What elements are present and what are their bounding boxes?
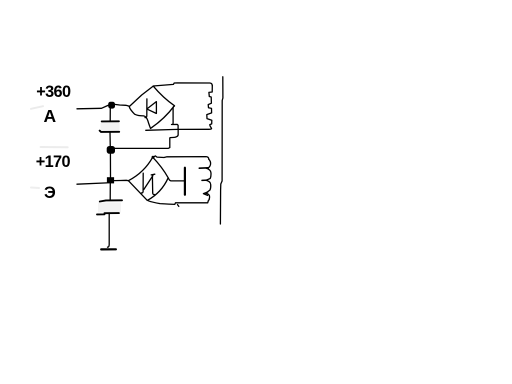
wire winding W1 bottom	[178, 128, 211, 129]
tube V2 envelope (diamond)	[128, 157, 168, 200]
V2 grid bar	[184, 168, 186, 195]
wire C2 to ground	[108, 214, 110, 247]
wire V2 to grid bar	[168, 178, 184, 181]
jpeg smudge near A	[31, 106, 43, 109]
wire V1 grid drop	[172, 106, 179, 129]
winding W2 cusp tick 2	[202, 179, 207, 181]
tube V2 apex blob	[152, 156, 155, 159]
wire node A to tube V1	[115, 104, 130, 106]
tube V1 triangle lower stroke	[148, 109, 157, 113]
jpeg smudge under +170 row	[41, 146, 68, 148]
jpeg noise inside C2	[98, 203, 121, 213]
jpeg smudge left of Э	[31, 187, 39, 190]
tube V1 envelope (diamond)	[129, 86, 174, 128]
label A (anode)	[44, 106, 57, 127]
wire node E to tube V2	[114, 179, 128, 181]
wire V1 anode to winding W1	[153, 83, 212, 86]
label +170	[36, 153, 70, 172]
wire +170/Э to node E	[77, 183, 107, 184]
tube V2 right bar	[152, 176, 154, 195]
node B junction dot	[107, 146, 115, 154]
capacitor C2 top plate	[100, 200, 122, 201]
tube V2 diagonal	[144, 176, 153, 190]
wire +360/A to node	[77, 105, 111, 109]
wire C1 to node B	[109, 132, 111, 148]
capacitor C1 bottom plate	[100, 131, 120, 132]
tube V2 cathode line	[142, 173, 144, 193]
tube V1 triangle upper stroke	[147, 102, 156, 109]
tick under W2 bottom wire	[178, 205, 179, 207]
node A junction dot	[108, 102, 115, 109]
wire V2 anode to winding W2	[153, 156, 209, 159]
tube V2 top tick	[151, 173, 155, 176]
jpeg noise inside C1	[101, 123, 120, 131]
tube V1 cathode line	[145, 99, 147, 118]
wire node A to capacitor C1	[109, 106, 111, 122]
winding W2 cusp tick 1	[199, 167, 208, 169]
wire node B to node E	[109, 149, 111, 178]
wire node E to capacitor C2	[109, 184, 111, 200]
wire node B to transformer T1 return	[111, 130, 178, 149]
wire V1 bottom vertex line	[146, 128, 178, 131]
right rail wire	[220, 77, 223, 224]
capacitor C1 top plate	[102, 120, 119, 122]
ground bar	[101, 248, 116, 250]
tube V1 triangle bar	[155, 102, 157, 114]
winding W2 cusp tick 3	[203, 192, 207, 195]
winding W1	[207, 86, 213, 129]
winding W2	[206, 159, 211, 198]
wire winding W2 bottom to V2	[148, 198, 209, 204]
label +360	[36, 83, 70, 102]
capacitor C2 bottom plate	[97, 213, 119, 214]
label Э (screen)	[44, 184, 56, 203]
node E square junction	[107, 177, 114, 183]
